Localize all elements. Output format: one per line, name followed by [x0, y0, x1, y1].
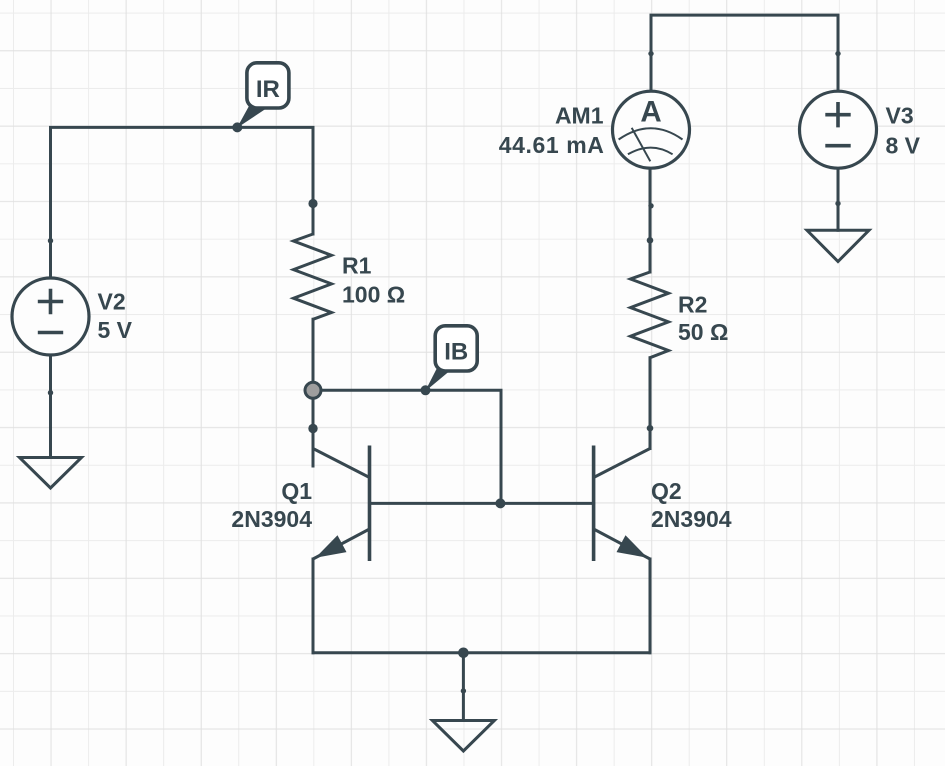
wire IB horizontal and down to base rail	[313, 390, 501, 503]
wire R2 top to ammeter	[649, 168, 652, 272]
wire Q1 emitter down	[312, 559, 315, 653]
voltage source V3	[800, 91, 877, 168]
terminal bump AM1 bottom	[648, 203, 653, 208]
svg-text:5 V: 5 V	[98, 317, 133, 343]
R1 value label "R1 / 100 Ω"	[342, 252, 405, 307]
AM1 label "AM1 / 44.61 mA"	[499, 102, 605, 158]
svg-text:8 V: 8 V	[886, 132, 921, 158]
transistor Q1 (2N3904, mirrored NPN)	[313, 446, 370, 562]
R1 terminal dot top	[308, 199, 317, 208]
svg-text:Q2: Q2	[651, 478, 682, 504]
terminal bump AM1 top	[648, 51, 653, 56]
wire emitter rail	[313, 651, 650, 654]
terminal bump V3 top	[835, 51, 840, 56]
node (gray junction) R1/IB/Q1	[305, 382, 321, 398]
svg-text:V2: V2	[98, 288, 126, 314]
svg-text:R1: R1	[342, 252, 372, 278]
R2 terminal dot top	[647, 237, 654, 244]
ground (bottom)	[432, 721, 494, 752]
R2 value label "R2 / 50 Ω"	[678, 291, 728, 345]
V2 label "V2 / 5 V"	[98, 288, 133, 343]
wire base rail Q1 to Q2	[370, 502, 594, 505]
svg-text:A: A	[640, 96, 661, 129]
svg-text:IB: IB	[444, 339, 468, 366]
Q1 label "Q1 / 2N3904"	[231, 478, 312, 532]
terminal bump V2 top	[48, 238, 53, 243]
wire V2 top to IR corner	[51, 127, 314, 278]
ground (V3)	[807, 230, 869, 261]
terminal bump bottom ground stem	[461, 688, 466, 693]
svg-text:V3: V3	[886, 102, 914, 128]
svg-text:44.61 mA: 44.61 mA	[499, 132, 605, 158]
junction dot IR node	[232, 122, 242, 132]
wire R1 bottom to node	[312, 319, 315, 390]
V3 label "V3 / 8 V"	[886, 102, 921, 158]
flag IB	[425, 326, 477, 392]
junction dot Q2 collector terminal	[647, 425, 654, 432]
ground (V2)	[20, 458, 82, 489]
wire ammeter top rail to V3 top	[651, 15, 838, 91]
wire Q2 emitter down	[649, 559, 652, 653]
wire V3 bottom to ground	[837, 168, 840, 230]
svg-text:R2: R2	[678, 291, 707, 317]
svg-text:50 Ω: 50 Ω	[678, 319, 728, 345]
junction dot emitter rail / ground stem	[458, 648, 469, 659]
resistor R2	[631, 272, 669, 358]
resistor R1	[294, 234, 332, 319]
Q2 label "Q2 / 2N3904"	[651, 478, 732, 532]
ammeter AM1	[613, 91, 690, 168]
svg-text:Q1: Q1	[281, 478, 312, 504]
wire node to Q1 collector	[312, 390, 315, 466]
flag IR	[237, 63, 289, 128]
svg-text:2N3904: 2N3904	[651, 506, 732, 532]
voltage source V2	[12, 278, 89, 355]
svg-text:AM1: AM1	[555, 102, 604, 128]
terminal bump V3 ground stem	[835, 201, 840, 206]
svg-text:100 Ω: 100 Ω	[342, 282, 405, 308]
terminal bump V2 bottom	[48, 390, 53, 395]
wire Q2 collector to R2	[649, 358, 652, 449]
junction dot IB node	[421, 385, 431, 395]
junction dot Q1 collector terminal	[308, 424, 317, 433]
wire ground stem bottom	[462, 653, 465, 721]
transistor Q2 (2N3904, NPN)	[594, 446, 650, 562]
svg-text:IR: IR	[256, 76, 280, 103]
svg-text:2N3904: 2N3904	[231, 506, 312, 532]
wire V2 bottom to ground	[49, 355, 52, 458]
junction dot base rail	[495, 498, 505, 508]
